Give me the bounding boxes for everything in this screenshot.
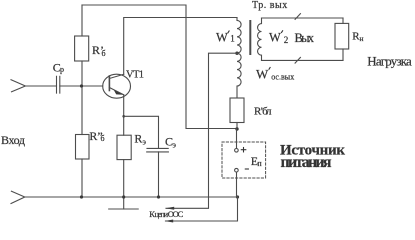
Ep dashed box [222, 142, 266, 178]
wire Cp to base [60, 85, 103, 87]
node rail Ep [236, 195, 239, 198]
capacitor Cp [56, 76, 58, 93]
wire rail to OOS 2 [166, 197, 238, 221]
node rail Ce [157, 195, 160, 198]
ground [123, 197, 125, 209]
wire emitter [123, 95, 125, 135]
wire R''b bottom [81, 159, 83, 197]
wire Re bottom [123, 160, 125, 197]
node tap [235, 52, 238, 55]
svg-text:Тр. вых: Тр. вых [252, 0, 287, 11]
svg-text:э: э [143, 137, 147, 146]
wire R'b top [81, 5, 83, 36]
input arrow top [11, 80, 26, 93]
resistor R''b [76, 135, 90, 160]
svg-text:К цепи ООС: К цепи ООС [149, 209, 183, 219]
svg-text:2: 2 [284, 35, 289, 45]
svg-text:R’бл: R’бл [254, 105, 272, 117]
transformer core [249, 21, 251, 54]
svg-text:W: W [256, 67, 269, 82]
svg-text:1: 1 [230, 34, 235, 44]
wire input to Cp [25, 85, 56, 87]
wire secondary bottom [262, 59, 344, 61]
svg-text:р: р [60, 65, 64, 74]
svg-text:ос.вых: ос.вых [271, 73, 294, 82]
resistor Rn [335, 23, 349, 49]
capacitor Ce [147, 147, 168, 149]
svg-text:э: э [173, 141, 177, 150]
svg-text:б: б [101, 134, 105, 143]
wire Ep minus to rail [236, 172, 238, 197]
Ep minus terminal [235, 168, 239, 172]
node base divider [80, 84, 83, 87]
wire Rn bottom [342, 49, 344, 60]
wire tap to OOS [166, 53, 237, 208]
Ep plus terminal [235, 149, 239, 153]
wire secondary top [262, 17, 344, 19]
arrow OOS 1 head [166, 207, 175, 210]
wire secondary to Rn [342, 18, 344, 23]
transformer primary W'1 [237, 18, 241, 54]
svg-text:н: н [360, 34, 364, 43]
svg-text:Вых: Вых [295, 31, 315, 45]
svg-text:R: R [134, 131, 142, 145]
node rail R''b [80, 195, 83, 198]
resistor R'b [75, 36, 89, 61]
arrow OOS 2 head [165, 220, 174, 223]
wire Ce bottom [158, 152, 160, 197]
label minus sign [245, 168, 248, 170]
transistor VT1 [103, 74, 131, 98]
node emitter branch [122, 115, 125, 118]
wire emitter branch to Ce [124, 116, 159, 148]
svg-text:VT1: VT1 [126, 69, 144, 80]
wire collector [124, 18, 237, 75]
svg-text:W: W [216, 31, 228, 45]
transformer winding W'os [237, 53, 241, 98]
node supply plus [235, 127, 238, 130]
wire to Ep plus [236, 129, 238, 148]
svg-text:питания: питания [281, 154, 332, 171]
svg-text:Вход: Вход [1, 133, 25, 147]
transformer secondary W'2 [258, 18, 262, 60]
input arrow bottom [11, 191, 25, 204]
svg-text:п: п [257, 159, 262, 168]
wire top rail outer [82, 5, 237, 129]
slash top [295, 13, 301, 19]
resistor Re [117, 135, 131, 159]
svg-text:б: б [102, 49, 106, 58]
wire R'bl bottom [236, 123, 238, 130]
node rail ground [122, 195, 125, 198]
wire R'b bottom to node [81, 61, 83, 135]
svg-text:W: W [269, 31, 281, 45]
resistor R'bl [230, 98, 244, 123]
label plus sign [241, 149, 246, 151]
slash bottom [295, 57, 301, 64]
bottom rail [25, 196, 238, 198]
svg-text:Нагрузка: Нагрузка [367, 54, 412, 69]
